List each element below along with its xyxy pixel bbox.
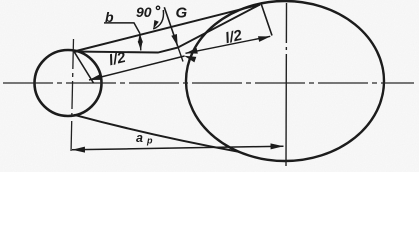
svg-text:90: 90 (136, 4, 152, 20)
svg-text:G: G (176, 5, 188, 22)
svg-text:p: p (146, 136, 153, 146)
svg-text:b: b (105, 9, 114, 25)
svg-text:a: a (136, 131, 143, 145)
